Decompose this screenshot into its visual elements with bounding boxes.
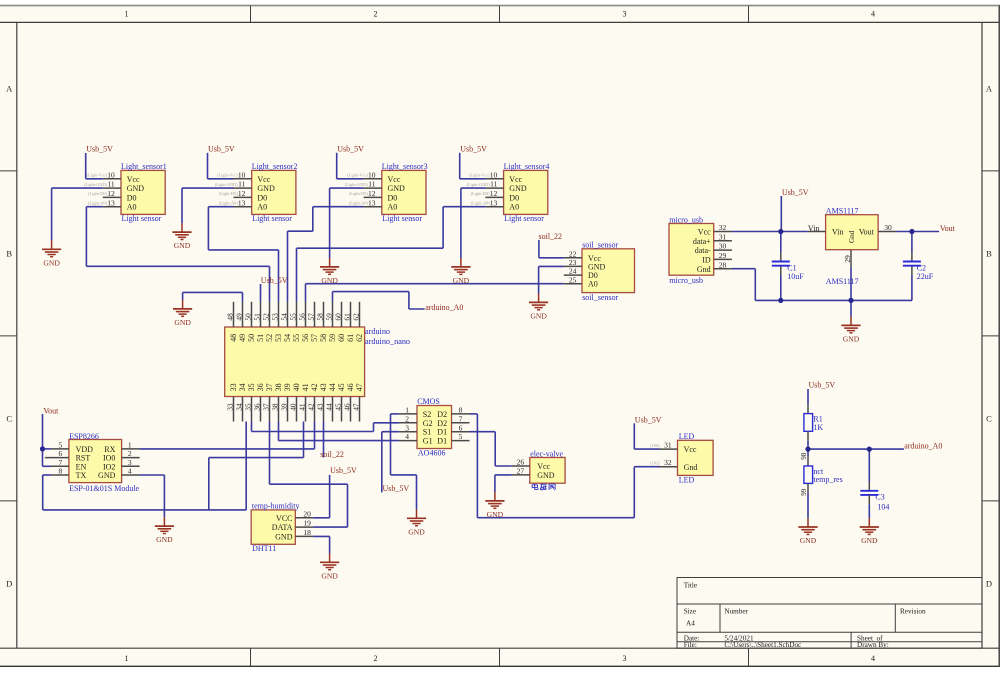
svg-text:GND: GND <box>174 318 191 327</box>
svg-text:19: 19 <box>303 519 311 528</box>
svg-text:Vout: Vout <box>940 224 956 233</box>
svg-text:7: 7 <box>59 458 63 467</box>
svg-text:A0: A0 <box>588 280 598 289</box>
svg-text:AMS1117: AMS1117 <box>826 207 859 216</box>
svg-text:28: 28 <box>719 260 727 269</box>
svg-text:soil_sensor: soil_sensor <box>582 293 618 302</box>
svg-text:37: 37 <box>265 383 274 391</box>
svg-text:13: 13 <box>368 198 376 207</box>
svg-text:Gnd: Gnd <box>684 463 698 472</box>
svg-text:GND: GND <box>321 571 338 580</box>
svg-text:G1: G1 <box>423 437 433 446</box>
svg-text:50: 50 <box>247 334 256 342</box>
svg-text:10: 10 <box>368 170 376 179</box>
svg-text:D: D <box>6 579 12 589</box>
svg-text:49: 49 <box>238 334 247 342</box>
svg-text:Vin: Vin <box>808 224 820 233</box>
svg-text:GND: GND <box>127 184 145 193</box>
svg-text:Usb_5V: Usb_5V <box>460 145 487 154</box>
svg-text:AO4606: AO4606 <box>418 449 446 458</box>
svg-text:micro_usb: micro_usb <box>669 216 703 225</box>
svg-text:EN: EN <box>76 462 87 471</box>
svg-text:GND: GND <box>98 471 116 480</box>
svg-text:D1: D1 <box>437 428 447 437</box>
svg-text:51: 51 <box>256 334 265 342</box>
svg-text:Usb_5V: Usb_5V <box>330 466 357 475</box>
svg-text:elec-valve: elec-valve <box>530 450 563 459</box>
svg-text:1: 1 <box>125 654 129 663</box>
svg-text:2: 2 <box>128 449 132 458</box>
svg-text:48: 48 <box>229 334 238 342</box>
svg-text:Light sensor: Light sensor <box>382 214 422 223</box>
svg-text:2: 2 <box>374 654 378 663</box>
svg-text:Light sensor: Light sensor <box>504 214 544 223</box>
svg-text:Vcc: Vcc <box>509 175 522 184</box>
svg-text:(Light-GND): (Light-GND) <box>345 182 368 187</box>
svg-text:(Light-A0): (Light-A0) <box>349 201 368 206</box>
svg-text:37: 37 <box>262 403 271 411</box>
svg-text:38: 38 <box>274 383 283 391</box>
svg-text:arduino_nano: arduino_nano <box>365 337 410 346</box>
svg-text:arduino: arduino <box>365 327 390 336</box>
svg-text:arduino_A0: arduino_A0 <box>904 441 942 450</box>
svg-text:62: 62 <box>352 313 361 321</box>
svg-text:arduino_A0: arduino_A0 <box>425 303 463 312</box>
svg-text:47: 47 <box>352 403 361 411</box>
svg-text:(Light-GND): (Light-GND) <box>84 182 107 187</box>
svg-text:TX: TX <box>76 471 87 480</box>
svg-text:B: B <box>986 248 992 258</box>
svg-text:Usb_5V: Usb_5V <box>383 484 410 493</box>
svg-text:(Light-Vcc): (Light-Vcc) <box>347 173 368 178</box>
svg-text:Light_sensor1: Light_sensor1 <box>121 162 167 171</box>
svg-text:GND: GND <box>275 532 293 541</box>
svg-text:(Light-Vcc): (Light-Vcc) <box>86 173 107 178</box>
svg-text:GND: GND <box>509 184 527 193</box>
svg-text:D1: D1 <box>437 437 447 446</box>
svg-text:25: 25 <box>569 275 577 284</box>
svg-text:GND: GND <box>530 312 547 321</box>
svg-text:45: 45 <box>334 403 343 411</box>
svg-text:4: 4 <box>405 432 409 441</box>
svg-text:D0: D0 <box>257 193 267 202</box>
svg-text:(Light-A0): (Light-A0) <box>88 201 107 206</box>
svg-text:soil_22: soil_22 <box>539 232 563 241</box>
svg-text:IO0: IO0 <box>103 454 115 463</box>
svg-text:3: 3 <box>623 9 627 18</box>
svg-text:S2: S2 <box>423 410 431 419</box>
svg-text:Usb_5V: Usb_5V <box>261 276 288 285</box>
svg-text:8: 8 <box>459 406 463 415</box>
svg-text:36: 36 <box>253 403 262 411</box>
svg-text:13: 13 <box>107 198 115 207</box>
svg-text:50: 50 <box>244 313 253 321</box>
svg-text:D0: D0 <box>127 193 137 202</box>
svg-text:35: 35 <box>247 383 256 391</box>
svg-text:10: 10 <box>107 170 115 179</box>
svg-text:GND: GND <box>843 335 860 344</box>
svg-text:(Light-D0): (Light-D0) <box>88 191 107 196</box>
svg-text:AMS1117: AMS1117 <box>826 277 859 286</box>
svg-text:A4: A4 <box>686 619 695 627</box>
svg-text:GND: GND <box>174 241 191 250</box>
svg-text:(Light-GND): (Light-GND) <box>215 182 238 187</box>
svg-text:57: 57 <box>310 334 319 342</box>
svg-text:29: 29 <box>843 255 852 263</box>
svg-text:41: 41 <box>301 383 310 391</box>
svg-text:Drawn By:: Drawn By: <box>857 641 889 649</box>
svg-text:3: 3 <box>623 654 627 663</box>
svg-text:46: 46 <box>346 383 355 391</box>
svg-text:(Light-A0): (Light-A0) <box>471 201 490 206</box>
svg-text:GND: GND <box>408 527 425 536</box>
svg-text:55: 55 <box>289 313 298 321</box>
svg-text:(100): (100) <box>650 443 660 448</box>
svg-text:VCC: VCC <box>276 514 292 523</box>
svg-text:(Light-A0): (Light-A0) <box>219 201 238 206</box>
svg-text:C:\Users\..\Sheet1.SchDoc: C:\Users\..\Sheet1.SchDoc <box>724 641 801 649</box>
svg-text:44: 44 <box>325 403 334 411</box>
svg-text:Light sensor: Light sensor <box>122 214 162 223</box>
svg-text:RST: RST <box>76 454 91 463</box>
svg-text:ESP8266: ESP8266 <box>69 432 99 441</box>
svg-text:33: 33 <box>229 383 238 391</box>
svg-text:12: 12 <box>238 189 246 198</box>
svg-text:54: 54 <box>283 334 292 342</box>
svg-text:41: 41 <box>298 403 307 411</box>
svg-text:13: 13 <box>238 198 246 207</box>
svg-text:6: 6 <box>459 423 463 432</box>
svg-text:C: C <box>6 413 12 423</box>
svg-text:11: 11 <box>368 180 375 189</box>
svg-text:35: 35 <box>244 403 253 411</box>
svg-text:Usb_5V: Usb_5V <box>208 145 235 154</box>
svg-text:(Light-D0): (Light-D0) <box>349 191 368 196</box>
svg-text:DATA: DATA <box>272 523 293 532</box>
svg-text:6: 6 <box>59 449 63 458</box>
svg-text:1: 1 <box>128 441 132 450</box>
svg-text:Vcc: Vcc <box>257 175 270 184</box>
svg-text:52: 52 <box>262 313 271 321</box>
svg-text:60: 60 <box>334 313 343 321</box>
svg-text:GND: GND <box>257 184 275 193</box>
svg-text:3: 3 <box>128 458 132 467</box>
svg-text:51: 51 <box>253 313 262 321</box>
svg-text:29: 29 <box>719 251 727 260</box>
svg-text:A0: A0 <box>388 203 398 212</box>
svg-text:C: C <box>986 413 992 423</box>
svg-text:RX: RX <box>104 445 115 454</box>
svg-text:Title: Title <box>684 582 697 590</box>
svg-text:A0: A0 <box>509 203 519 212</box>
svg-text:D0: D0 <box>388 193 398 202</box>
svg-text:58: 58 <box>319 334 328 342</box>
svg-text:ESP-01&01S Module: ESP-01&01S Module <box>69 484 139 493</box>
svg-text:A: A <box>986 83 993 93</box>
svg-text:soil_22: soil_22 <box>320 450 344 459</box>
svg-text:VDD: VDD <box>76 445 94 454</box>
svg-text:Number: Number <box>724 608 748 616</box>
svg-text:1: 1 <box>405 406 409 415</box>
svg-text:soil_sensor: soil_sensor <box>582 241 618 250</box>
svg-text:39: 39 <box>283 383 292 391</box>
svg-text:C3: C3 <box>875 492 884 501</box>
svg-text:12: 12 <box>368 189 376 198</box>
svg-text:44: 44 <box>328 383 337 391</box>
svg-text:temp-humidity: temp-humidity <box>252 501 300 510</box>
svg-text:Vin: Vin <box>832 228 844 237</box>
svg-text:27: 27 <box>517 467 525 476</box>
svg-text:Revision: Revision <box>900 608 926 616</box>
svg-text:53: 53 <box>274 334 283 342</box>
svg-text:104: 104 <box>877 503 889 512</box>
svg-text:30: 30 <box>884 223 892 232</box>
svg-text:40: 40 <box>289 403 298 411</box>
svg-text:47: 47 <box>355 383 364 391</box>
svg-text:45: 45 <box>337 383 346 391</box>
svg-text:56: 56 <box>298 313 307 321</box>
svg-text:98: 98 <box>800 452 808 460</box>
svg-text:3: 3 <box>405 423 409 432</box>
svg-text:52: 52 <box>265 334 274 342</box>
svg-text:33: 33 <box>226 403 235 411</box>
svg-text:22uF: 22uF <box>917 272 934 281</box>
svg-text:1: 1 <box>125 9 129 18</box>
svg-text:GND: GND <box>453 276 470 285</box>
svg-text:(Light-GND): (Light-GND) <box>467 182 490 187</box>
svg-text:G2: G2 <box>423 419 433 428</box>
svg-text:8: 8 <box>59 467 63 476</box>
svg-text:LED: LED <box>679 432 695 441</box>
svg-text:57: 57 <box>307 313 316 321</box>
svg-text:2: 2 <box>405 414 409 423</box>
svg-text:micro_usb: micro_usb <box>669 276 703 285</box>
svg-text:4: 4 <box>871 654 875 663</box>
svg-text:53: 53 <box>271 313 280 321</box>
svg-text:(Light-Vcc): (Light-Vcc) <box>217 173 238 178</box>
svg-text:GND: GND <box>156 535 173 544</box>
svg-text:58: 58 <box>316 313 325 321</box>
svg-text:D: D <box>986 579 992 589</box>
svg-text:GND: GND <box>800 536 817 545</box>
svg-text:54: 54 <box>280 313 289 321</box>
svg-text:62: 62 <box>355 334 364 342</box>
svg-text:31: 31 <box>719 232 727 241</box>
svg-text:59: 59 <box>328 334 337 342</box>
svg-text:A0: A0 <box>257 203 267 212</box>
svg-text:File:: File: <box>684 641 697 649</box>
svg-text:48: 48 <box>226 313 235 321</box>
svg-text:10: 10 <box>490 170 498 179</box>
svg-text:49: 49 <box>235 313 244 321</box>
svg-text:4: 4 <box>871 9 875 18</box>
svg-text:18: 18 <box>303 528 311 537</box>
svg-text:Light_sensor3: Light_sensor3 <box>382 162 428 171</box>
svg-text:LED: LED <box>679 476 695 485</box>
svg-text:30: 30 <box>719 242 727 251</box>
svg-text:39: 39 <box>280 403 289 411</box>
svg-text:GND: GND <box>388 184 406 193</box>
svg-text:12: 12 <box>107 189 115 198</box>
svg-text:46: 46 <box>343 403 352 411</box>
svg-text:GND: GND <box>321 276 338 285</box>
svg-text:5: 5 <box>459 432 463 441</box>
svg-text:42: 42 <box>310 383 319 391</box>
svg-text:31: 31 <box>664 441 672 450</box>
svg-text:13: 13 <box>490 198 498 207</box>
svg-text:61: 61 <box>346 334 355 342</box>
svg-text:CMOS: CMOS <box>417 397 440 406</box>
svg-text:36: 36 <box>256 383 265 391</box>
svg-text:Vout: Vout <box>859 228 875 237</box>
svg-text:Light_sensor2: Light_sensor2 <box>252 162 298 171</box>
svg-text:5: 5 <box>59 441 63 450</box>
svg-text:Light sensor: Light sensor <box>252 214 292 223</box>
svg-text:Vcc: Vcc <box>684 445 697 454</box>
svg-text:IO2: IO2 <box>103 462 115 471</box>
svg-text:Size: Size <box>684 608 696 616</box>
svg-text:Usb_5V: Usb_5V <box>809 381 836 390</box>
svg-text:data+: data+ <box>693 237 711 246</box>
svg-text:34: 34 <box>235 403 244 411</box>
svg-text:32: 32 <box>719 223 727 232</box>
svg-text:10: 10 <box>238 170 246 179</box>
svg-text:Light_sensor4: Light_sensor4 <box>504 162 550 171</box>
svg-text:(101): (101) <box>650 460 660 465</box>
svg-text:Usb_5V: Usb_5V <box>86 145 113 154</box>
svg-text:GND: GND <box>588 262 606 271</box>
svg-text:Usb_5V: Usb_5V <box>782 188 809 197</box>
svg-text:11: 11 <box>107 180 114 189</box>
svg-text:Usb_5V: Usb_5V <box>337 145 364 154</box>
svg-text:GND: GND <box>861 536 878 545</box>
svg-text:11: 11 <box>238 180 245 189</box>
svg-text:10uF: 10uF <box>787 272 804 281</box>
svg-text:11: 11 <box>490 180 497 189</box>
svg-text:40: 40 <box>292 383 301 391</box>
svg-text:60: 60 <box>337 334 346 342</box>
svg-text:Vcc: Vcc <box>127 175 140 184</box>
svg-text:4: 4 <box>128 467 132 476</box>
svg-text:temp_res: temp_res <box>813 475 842 484</box>
svg-text:A0: A0 <box>127 203 137 212</box>
svg-text:34: 34 <box>238 383 247 391</box>
svg-text:Vcc: Vcc <box>537 462 550 471</box>
svg-text:2: 2 <box>374 9 378 18</box>
svg-text:56: 56 <box>301 334 310 342</box>
svg-text:Vcc: Vcc <box>698 228 711 237</box>
svg-text:43: 43 <box>319 383 328 391</box>
svg-text:32: 32 <box>664 458 672 467</box>
svg-text:42: 42 <box>307 403 316 411</box>
svg-text:38: 38 <box>271 403 280 411</box>
svg-text:GND: GND <box>537 471 555 480</box>
svg-text:99: 99 <box>800 488 808 496</box>
svg-text:59: 59 <box>325 313 334 321</box>
svg-text:Gnd: Gnd <box>697 265 711 274</box>
svg-text:GND: GND <box>43 258 60 267</box>
svg-text:D2: D2 <box>437 410 447 419</box>
svg-text:12: 12 <box>490 189 498 198</box>
svg-text:(Light-Vcc): (Light-Vcc) <box>469 173 490 178</box>
svg-text:D0: D0 <box>509 193 519 202</box>
svg-text:61: 61 <box>343 313 352 321</box>
svg-text:23: 23 <box>569 258 577 267</box>
svg-text:20: 20 <box>303 509 311 518</box>
svg-text:A: A <box>6 83 13 93</box>
svg-text:Usb_5V: Usb_5V <box>635 415 662 424</box>
svg-text:S1: S1 <box>423 428 431 437</box>
svg-text:Vout: Vout <box>43 406 59 415</box>
svg-text:7: 7 <box>459 414 463 423</box>
svg-text:Vcc: Vcc <box>388 175 401 184</box>
svg-text:26: 26 <box>517 458 525 467</box>
svg-text:43: 43 <box>316 403 325 411</box>
svg-text:GND: GND <box>487 510 504 519</box>
svg-text:ID: ID <box>702 256 711 265</box>
svg-text:DHT11: DHT11 <box>252 544 276 553</box>
svg-text:(Light-D0): (Light-D0) <box>219 191 238 196</box>
svg-text:D2: D2 <box>437 419 447 428</box>
svg-text:data-: data- <box>695 246 711 255</box>
svg-text:B: B <box>6 248 12 258</box>
svg-text:Gnd: Gnd <box>848 230 856 243</box>
svg-text:55: 55 <box>292 334 301 342</box>
svg-text:(Light-D0): (Light-D0) <box>471 191 490 196</box>
svg-text:1K: 1K <box>813 423 823 432</box>
